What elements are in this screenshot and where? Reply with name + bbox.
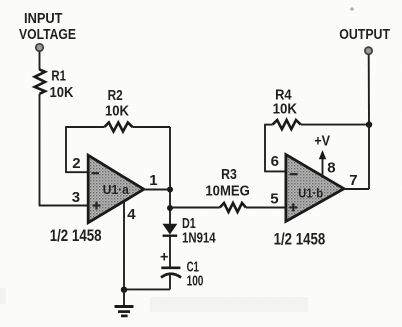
wire R3 to pin 5	[246, 207, 287, 209]
wire top feedback left segment	[264, 124, 272, 126]
wire feedback left vertical U1-b	[264, 125, 266, 172]
wire output pin1	[144, 189, 170, 191]
resistor R2	[104, 88, 132, 132]
wire node to R3	[170, 207, 220, 209]
wire diode to C1	[169, 236, 171, 267]
wire R1 down to pin3 level	[39, 94, 41, 206]
op-amp U1-b	[286, 155, 344, 222]
wire R4 to output vertical	[301, 124, 369, 126]
wire output pin7	[344, 188, 369, 190]
resistor R4	[273, 88, 301, 130]
wire to pin 6	[264, 170, 286, 172]
wire to pin 3	[39, 205, 89, 207]
node junction R3 branch	[167, 205, 173, 211]
wire R2 to output node	[133, 126, 171, 128]
wire output node vertical	[169, 127, 171, 225]
op-amp U1-a	[88, 155, 144, 222]
node junction pin1	[167, 187, 173, 193]
wire input terminal to R1	[39, 52, 41, 71]
ground	[115, 307, 134, 316]
wire pin7 vertical up	[368, 125, 370, 189]
wire top feedback left segment	[65, 126, 104, 128]
wire bottom horizontal	[124, 288, 170, 290]
pin 8 +V arrow	[314, 133, 330, 176]
wire feedback left vertical U1-a	[65, 127, 67, 172]
wire C1 down	[169, 274, 171, 289]
wire to pin 2	[65, 171, 89, 173]
capacitor C1	[160, 250, 203, 290]
wire pin4 vertical	[123, 201, 125, 290]
diode D1	[163, 216, 216, 247]
output terminal	[365, 47, 372, 54]
wire to ground	[123, 290, 125, 306]
wire output terminal down	[368, 55, 370, 125]
node junction output	[366, 121, 372, 127]
input terminal	[36, 44, 43, 51]
resistor R1	[35, 69, 74, 101]
resistor R3	[205, 167, 249, 212]
label INPUT VOLTAGE	[19, 11, 76, 43]
node junction ground	[121, 287, 127, 293]
